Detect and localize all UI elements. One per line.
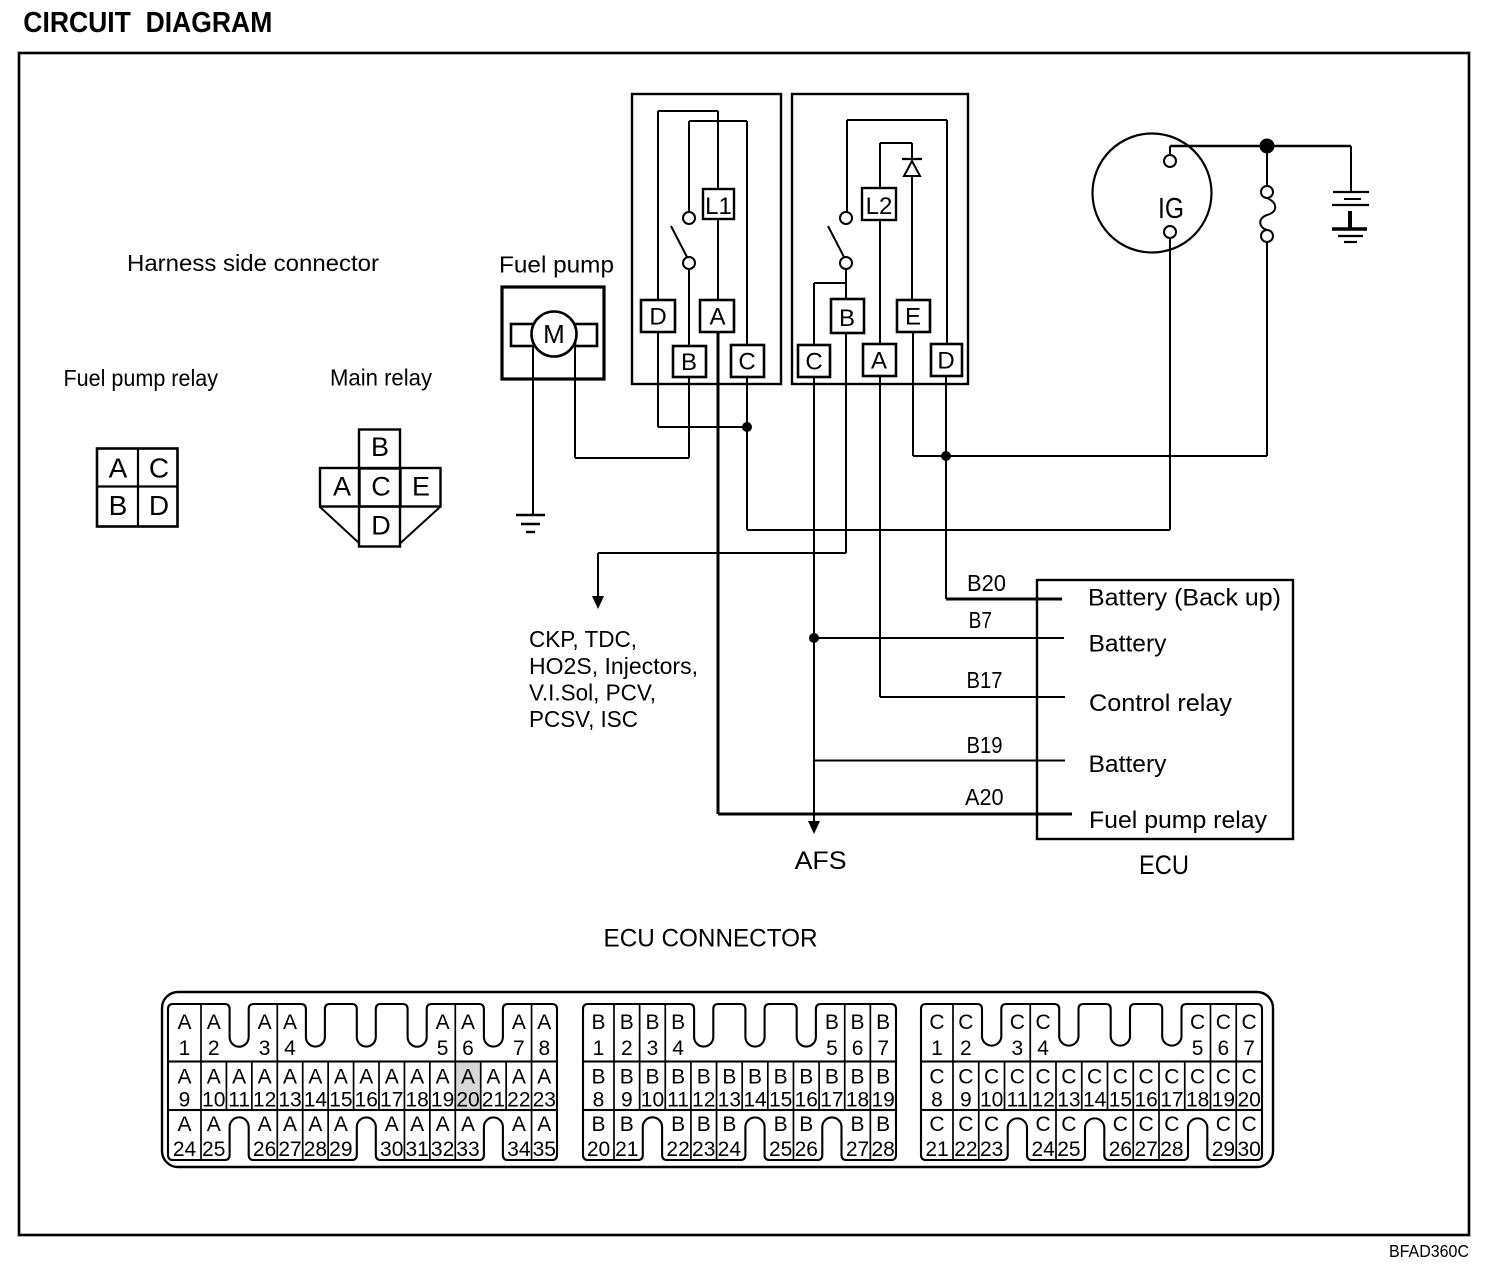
svg-text:A: A (537, 1113, 551, 1136)
svg-text:17: 17 (1160, 1089, 1183, 1112)
svg-text:B: B (876, 1011, 890, 1034)
svg-text:4: 4 (284, 1037, 296, 1060)
svg-text:6: 6 (1218, 1037, 1230, 1060)
svg-text:10: 10 (202, 1089, 225, 1112)
svg-text:A: A (461, 1066, 475, 1089)
svg-text:A: A (283, 1113, 297, 1136)
svg-text:26: 26 (795, 1138, 818, 1161)
svg-text:14: 14 (743, 1089, 767, 1112)
svg-text:M: M (543, 319, 565, 349)
svg-text:D: D (937, 348, 954, 375)
svg-text:18: 18 (405, 1089, 428, 1112)
svg-text:B: B (825, 1066, 839, 1089)
svg-text:Battery: Battery (1089, 631, 1168, 658)
svg-text:15: 15 (329, 1089, 352, 1112)
svg-text:B7: B7 (969, 607, 992, 633)
svg-text:L2: L2 (866, 193, 893, 220)
svg-text:C: C (984, 1113, 999, 1136)
svg-text:C: C (1036, 1011, 1051, 1034)
svg-text:PCSV, ISC: PCSV, ISC (529, 706, 638, 732)
svg-text:28: 28 (872, 1138, 895, 1161)
svg-text:B: B (748, 1066, 762, 1089)
svg-text:C: C (958, 1066, 973, 1089)
svg-text:Control relay: Control relay (1089, 690, 1233, 717)
svg-text:C: C (1087, 1066, 1102, 1089)
svg-text:D: D (149, 490, 169, 521)
svg-text:A: A (359, 1066, 373, 1089)
svg-text:35: 35 (533, 1138, 556, 1161)
svg-text:B: B (839, 305, 855, 332)
svg-text:B: B (876, 1066, 890, 1089)
svg-text:A: A (207, 1011, 221, 1034)
svg-text:26: 26 (253, 1138, 276, 1161)
svg-text:C: C (371, 472, 391, 502)
svg-text:21: 21 (482, 1089, 505, 1112)
svg-text:A: A (283, 1066, 297, 1089)
svg-text:C: C (1164, 1113, 1179, 1136)
svg-text:A: A (333, 472, 351, 502)
svg-text:7: 7 (1243, 1037, 1255, 1060)
svg-text:B: B (876, 1113, 890, 1136)
svg-text:C: C (805, 349, 822, 376)
svg-text:4: 4 (1037, 1037, 1049, 1060)
svg-text:1: 1 (931, 1037, 943, 1060)
svg-text:A: A (177, 1066, 191, 1089)
svg-text:B: B (620, 1113, 634, 1136)
svg-text:29: 29 (329, 1138, 352, 1161)
svg-text:31: 31 (405, 1138, 428, 1161)
svg-text:6: 6 (462, 1037, 474, 1060)
svg-text:B: B (722, 1113, 736, 1136)
svg-text:16: 16 (1134, 1089, 1157, 1112)
svg-text:1: 1 (593, 1037, 605, 1060)
svg-text:A: A (436, 1066, 450, 1089)
svg-text:A: A (512, 1011, 526, 1034)
svg-text:23: 23 (533, 1089, 556, 1112)
svg-text:A: A (308, 1113, 322, 1136)
svg-text:19: 19 (872, 1089, 895, 1112)
svg-text:15: 15 (1109, 1089, 1132, 1112)
svg-text:B: B (671, 1113, 685, 1136)
svg-text:30: 30 (380, 1138, 403, 1161)
svg-text:B: B (620, 1011, 634, 1034)
svg-text:9: 9 (960, 1089, 972, 1112)
svg-text:3: 3 (647, 1037, 659, 1060)
svg-text:B: B (109, 490, 128, 521)
svg-text:B: B (645, 1011, 659, 1034)
svg-text:11: 11 (1006, 1089, 1028, 1112)
svg-text:28: 28 (304, 1138, 327, 1161)
svg-text:12: 12 (253, 1089, 276, 1112)
svg-text:B19: B19 (967, 732, 1003, 758)
svg-text:3: 3 (1012, 1037, 1024, 1060)
svg-text:A: A (258, 1011, 272, 1034)
svg-text:A: A (512, 1066, 526, 1089)
svg-text:HO2S, Injectors,: HO2S, Injectors, (529, 653, 698, 679)
svg-text:A: A (537, 1066, 551, 1089)
svg-text:C: C (1010, 1011, 1025, 1034)
svg-text:E: E (412, 472, 430, 502)
svg-text:3: 3 (259, 1037, 271, 1060)
svg-text:13: 13 (718, 1089, 741, 1112)
svg-text:5: 5 (437, 1037, 449, 1060)
svg-text:C: C (1113, 1066, 1128, 1089)
svg-text:24: 24 (1031, 1138, 1055, 1161)
svg-text:A: A (410, 1066, 424, 1089)
svg-text:14: 14 (1083, 1089, 1107, 1112)
svg-text:23: 23 (980, 1138, 1003, 1161)
svg-text:23: 23 (692, 1138, 715, 1161)
svg-text:12: 12 (1031, 1089, 1054, 1112)
svg-text:20: 20 (587, 1138, 610, 1161)
svg-text:B: B (851, 1113, 865, 1136)
svg-text:22: 22 (666, 1138, 689, 1161)
svg-text:A: A (512, 1113, 526, 1136)
svg-text:27: 27 (846, 1138, 869, 1161)
svg-text:CIRCUIT DIAGRAM: CIRCUIT DIAGRAM (23, 7, 272, 39)
svg-text:17: 17 (380, 1089, 403, 1112)
svg-text:ECU: ECU (1139, 850, 1189, 880)
svg-text:C: C (1036, 1113, 1051, 1136)
svg-text:13: 13 (278, 1089, 301, 1112)
svg-text:B: B (697, 1066, 711, 1089)
svg-text:A: A (334, 1113, 348, 1136)
svg-text:C: C (1242, 1066, 1257, 1089)
svg-text:32: 32 (431, 1138, 454, 1161)
svg-text:33: 33 (456, 1138, 479, 1161)
svg-text:22: 22 (954, 1138, 977, 1161)
svg-text:C: C (1113, 1113, 1128, 1136)
svg-text:B20: B20 (967, 570, 1006, 596)
svg-text:24: 24 (718, 1138, 742, 1161)
svg-text:A20: A20 (965, 784, 1004, 810)
svg-text:21: 21 (615, 1138, 638, 1161)
svg-text:A: A (537, 1011, 551, 1034)
svg-text:B17: B17 (967, 667, 1003, 693)
svg-text:10: 10 (980, 1089, 1003, 1112)
svg-text:18: 18 (846, 1089, 869, 1112)
svg-text:Harness side connector: Harness side connector (127, 250, 379, 276)
svg-text:B: B (645, 1066, 659, 1089)
svg-text:B: B (620, 1066, 634, 1089)
svg-text:B: B (591, 1011, 605, 1034)
svg-text:E: E (905, 304, 921, 331)
svg-text:B: B (591, 1066, 605, 1089)
svg-text:C: C (1061, 1066, 1076, 1089)
svg-text:C: C (958, 1113, 973, 1136)
svg-text:C: C (149, 453, 169, 484)
svg-text:C: C (984, 1066, 999, 1089)
svg-text:AFS: AFS (795, 847, 847, 875)
svg-text:C: C (958, 1011, 973, 1034)
svg-text:A: A (385, 1066, 399, 1089)
svg-text:C: C (929, 1011, 944, 1034)
svg-text:CKP, TDC,: CKP, TDC, (529, 626, 637, 652)
svg-text:A: A (871, 348, 887, 375)
svg-text:2: 2 (621, 1037, 633, 1060)
svg-text:C: C (1216, 1066, 1231, 1089)
svg-text:B: B (671, 1066, 685, 1089)
svg-text:1: 1 (179, 1037, 191, 1060)
svg-text:C: C (1242, 1113, 1257, 1136)
svg-text:A: A (207, 1066, 221, 1089)
svg-text:A: A (385, 1113, 399, 1136)
svg-text:A: A (486, 1066, 500, 1089)
svg-text:B: B (722, 1066, 736, 1089)
svg-text:5: 5 (826, 1037, 838, 1060)
svg-text:B: B (799, 1066, 813, 1089)
svg-text:Fuel pump relay: Fuel pump relay (1089, 807, 1268, 834)
svg-text:C: C (1164, 1066, 1179, 1089)
svg-text:24: 24 (173, 1138, 197, 1161)
svg-text:16: 16 (795, 1089, 818, 1112)
svg-text:27: 27 (1134, 1138, 1157, 1161)
svg-text:10: 10 (641, 1089, 664, 1112)
svg-text:22: 22 (507, 1089, 530, 1112)
svg-text:A: A (461, 1113, 475, 1136)
svg-text:C: C (1036, 1066, 1051, 1089)
svg-text:C: C (1242, 1011, 1257, 1034)
svg-text:C: C (1139, 1113, 1154, 1136)
svg-text:Fuel pump: Fuel pump (499, 252, 614, 278)
svg-text:9: 9 (179, 1089, 191, 1112)
svg-text:11: 11 (228, 1089, 250, 1112)
svg-text:D: D (371, 511, 391, 541)
svg-text:A: A (258, 1113, 272, 1136)
svg-text:B: B (774, 1066, 788, 1089)
svg-text:13: 13 (1057, 1089, 1080, 1112)
svg-text:C: C (1216, 1113, 1231, 1136)
svg-text:B: B (774, 1113, 788, 1136)
svg-text:B: B (851, 1066, 865, 1089)
svg-text:B: B (591, 1113, 605, 1136)
svg-text:C: C (929, 1066, 944, 1089)
svg-text:A: A (461, 1011, 475, 1034)
svg-text:25: 25 (202, 1138, 225, 1161)
svg-text:A: A (436, 1113, 450, 1136)
svg-text:5: 5 (1192, 1037, 1204, 1060)
svg-text:25: 25 (1057, 1138, 1080, 1161)
svg-text:8: 8 (538, 1037, 550, 1060)
svg-text:34: 34 (507, 1138, 531, 1161)
svg-text:4: 4 (672, 1037, 684, 1060)
svg-text:7: 7 (513, 1037, 525, 1060)
svg-text:A: A (283, 1011, 297, 1034)
svg-text:A: A (334, 1066, 348, 1089)
svg-text:B: B (671, 1011, 685, 1034)
svg-text:21: 21 (925, 1138, 948, 1161)
svg-text:8: 8 (593, 1089, 605, 1112)
svg-text:C: C (1216, 1011, 1231, 1034)
svg-text:Battery (Back up): Battery (Back up) (1088, 585, 1281, 612)
svg-text:16: 16 (355, 1089, 378, 1112)
svg-text:17: 17 (820, 1089, 843, 1112)
svg-text:26: 26 (1109, 1138, 1132, 1161)
svg-text:A: A (232, 1066, 246, 1089)
svg-text:B: B (371, 432, 389, 462)
svg-text:29: 29 (1212, 1138, 1235, 1161)
svg-text:20: 20 (1237, 1089, 1260, 1112)
svg-text:C: C (929, 1113, 944, 1136)
svg-text:A: A (177, 1011, 191, 1034)
svg-text:A: A (109, 453, 128, 484)
svg-text:12: 12 (692, 1089, 715, 1112)
svg-text:B: B (851, 1011, 865, 1034)
svg-text:19: 19 (1212, 1089, 1235, 1112)
svg-text:A: A (177, 1113, 191, 1136)
svg-text:8: 8 (931, 1089, 943, 1112)
svg-text:14: 14 (304, 1089, 328, 1112)
svg-text:C: C (738, 349, 755, 376)
svg-text:A: A (207, 1113, 221, 1136)
svg-text:B: B (799, 1113, 813, 1136)
svg-text:C: C (1010, 1066, 1025, 1089)
svg-text:C: C (1061, 1113, 1076, 1136)
svg-text:Main relay: Main relay (330, 365, 432, 391)
svg-text:27: 27 (278, 1138, 301, 1161)
svg-text:BFAD360C: BFAD360C (1389, 1241, 1469, 1261)
svg-text:IG: IG (1158, 193, 1184, 225)
svg-text:19: 19 (431, 1089, 454, 1112)
svg-text:B: B (697, 1113, 711, 1136)
svg-text:ECU CONNECTOR: ECU CONNECTOR (604, 925, 818, 953)
svg-text:15: 15 (769, 1089, 792, 1112)
svg-text:A: A (709, 304, 725, 331)
svg-text:A: A (410, 1113, 424, 1136)
svg-text:A: A (258, 1066, 272, 1089)
svg-text:30: 30 (1237, 1138, 1260, 1161)
svg-text:A: A (308, 1066, 322, 1089)
svg-text:28: 28 (1160, 1138, 1183, 1161)
svg-text:7: 7 (877, 1037, 889, 1060)
svg-text:11: 11 (667, 1089, 689, 1112)
svg-text:Battery: Battery (1089, 751, 1168, 778)
svg-text:C: C (1190, 1011, 1205, 1034)
svg-text:B: B (825, 1011, 839, 1034)
svg-text:D: D (649, 304, 666, 331)
svg-text:L1: L1 (705, 193, 732, 220)
svg-text:2: 2 (208, 1037, 220, 1060)
svg-text:2: 2 (960, 1037, 972, 1060)
svg-text:A: A (436, 1011, 450, 1034)
svg-text:25: 25 (769, 1138, 792, 1161)
svg-text:C: C (1190, 1066, 1205, 1089)
svg-text:20: 20 (456, 1089, 479, 1112)
svg-text:9: 9 (621, 1089, 633, 1112)
svg-text:6: 6 (852, 1037, 864, 1060)
svg-text:V.I.Sol, PCV,: V.I.Sol, PCV, (529, 680, 656, 706)
svg-text:B: B (681, 349, 697, 376)
svg-text:Fuel pump relay: Fuel pump relay (64, 365, 219, 391)
svg-text:C: C (1139, 1066, 1154, 1089)
svg-text:18: 18 (1186, 1089, 1209, 1112)
